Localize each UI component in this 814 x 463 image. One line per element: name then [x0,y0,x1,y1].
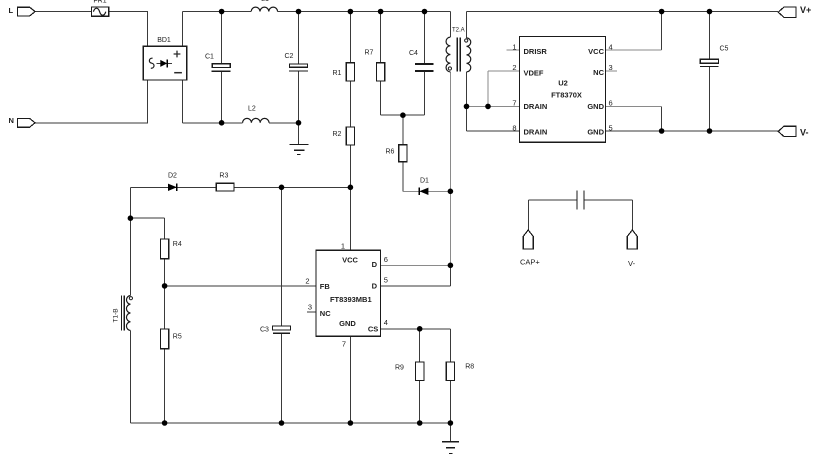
svg-text:R8: R8 [465,364,474,371]
svg-text:D: D [372,281,378,290]
svg-text:R5: R5 [173,334,182,341]
svg-text:D1: D1 [420,178,429,185]
svg-text:R9: R9 [395,365,404,372]
svg-text:T1-B: T1-B [113,308,120,322]
svg-text:NC: NC [593,68,604,77]
svg-text:CS: CS [368,324,378,333]
svg-text:R2: R2 [333,131,342,138]
svg-text:1: 1 [512,42,516,51]
svg-text:VCC: VCC [588,47,604,56]
svg-text:NC: NC [320,309,331,318]
svg-text:L1: L1 [261,0,269,3]
svg-text:GND: GND [587,128,604,137]
svg-text:C1: C1 [205,54,214,61]
svg-text:FR1: FR1 [93,0,106,5]
svg-text:8: 8 [512,123,516,132]
svg-text:R7: R7 [365,50,374,57]
svg-text:FT8370X: FT8370X [551,91,582,100]
svg-text:3: 3 [609,63,613,72]
svg-text:VDEF: VDEF [524,68,544,77]
svg-text:V-: V- [800,127,809,137]
svg-text:C2: C2 [285,53,294,60]
svg-text:GND: GND [339,319,356,328]
svg-text:1: 1 [341,242,345,251]
svg-text:D: D [372,260,378,269]
svg-text:C5: C5 [720,46,729,53]
svg-text:DRAIN: DRAIN [524,102,548,111]
svg-text:D2: D2 [168,172,177,179]
svg-text:C4: C4 [409,50,418,57]
svg-text:L: L [9,6,14,15]
svg-text:DRAIN: DRAIN [524,128,548,137]
svg-text:L2: L2 [248,106,256,113]
svg-text:5: 5 [609,123,613,132]
svg-text:BD1: BD1 [157,37,171,44]
svg-text:V+: V+ [800,5,811,15]
svg-text:V-: V- [628,259,636,268]
svg-text:C3: C3 [260,327,269,334]
svg-text:DRISR: DRISR [524,47,548,56]
svg-text:N: N [9,116,14,125]
svg-text:6: 6 [384,255,388,264]
svg-text:GND: GND [587,102,604,111]
svg-text:U2: U2 [558,79,568,88]
svg-text:3: 3 [308,302,312,311]
svg-text:T2.A: T2.A [452,28,465,34]
svg-text:FT8393MB1: FT8393MB1 [330,295,372,304]
svg-text:R1: R1 [333,70,342,77]
svg-text:2: 2 [512,63,516,72]
svg-text:6: 6 [609,99,613,108]
svg-text:4: 4 [384,318,388,327]
svg-text:7: 7 [512,99,516,108]
svg-text:R6: R6 [386,149,395,156]
svg-text:5: 5 [384,276,388,285]
svg-text:CAP+: CAP+ [520,258,540,267]
svg-text:FB: FB [320,282,331,291]
svg-text:4: 4 [609,42,613,51]
svg-text:VCC: VCC [342,256,358,265]
svg-text:7: 7 [342,340,346,349]
svg-text:R4: R4 [173,241,182,248]
svg-text:2: 2 [305,276,309,285]
svg-text:R3: R3 [219,173,228,180]
